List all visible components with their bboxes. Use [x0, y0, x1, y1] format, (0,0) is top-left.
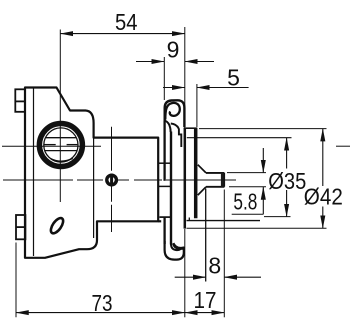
clip hook outer: [165, 241, 184, 260]
curl inner spiral: [165, 103, 180, 120]
dim 17 line: [185, 312, 225, 314]
cover slot middle broken line: [44, 144, 56, 146]
shaft taper top: [198, 165, 206, 173]
cover inner circle: [44, 128, 78, 162]
dim 54 extension right (shared): [184, 27, 186, 128]
svg-text:54: 54: [115, 9, 138, 35]
clip leg rung top: [159, 162, 172, 164]
centerline horizontal (cover): [2, 145, 101, 147]
flange plate top edge: [184, 127, 198, 129]
centerline shaft axis: [3, 179, 236, 181]
dim 5 extension right: [196, 84, 198, 127]
dim 73 extension left: [15, 243, 17, 318]
clip leg rung bottom: [159, 185, 172, 187]
dim 8 extension left: [205, 189, 207, 282]
svg-text:Ø42: Ø42: [304, 183, 343, 209]
clip leg left edge (upper): [163, 121, 165, 181]
cover ring (thick): [39, 124, 82, 167]
dim 17 extension right: [223, 190, 225, 318]
dim 5.8 extension bottom: [229, 186, 266, 188]
clip hook inner: [171, 241, 181, 250]
svg-text:5: 5: [227, 64, 240, 90]
svg-text:Ø35: Ø35: [268, 168, 306, 194]
body mid joint line: [93, 138, 95, 238]
dim 73/17 shared extension: [184, 229, 186, 317]
cover slot bottom line: [45, 150, 77, 152]
shaft stub top: [206, 172, 224, 174]
svg-text:73: 73: [92, 290, 113, 316]
curl bottom fold: [171, 124, 182, 148]
shaft stub bottom: [206, 186, 224, 188]
small circle node: [107, 175, 117, 185]
dim D42 line: [322, 129, 324, 186]
cover lower chord: [50, 158, 72, 161]
flange plate bottom step: [187, 220, 261, 222]
clip hook tip: [172, 243, 184, 250]
dim D42 extension bottom: [187, 227, 327, 229]
clip leg rung lower: [160, 216, 171, 218]
body bottom edge right stub: [158, 220, 161, 222]
clip leg left edge (lower): [163, 217, 165, 244]
dim D42 extension top: [199, 128, 327, 130]
shaft stub end cap: [221, 173, 225, 187]
svg-text:9: 9: [167, 36, 180, 62]
svg-text:8: 8: [208, 252, 221, 278]
dim 5 arrows: [163, 87, 185, 89]
dim 5.8 arrows: [262, 148, 264, 173]
dim 54 line: [60, 33, 185, 35]
svg-text:17: 17: [194, 287, 217, 313]
dim 9 arrows: [136, 61, 164, 63]
top curl (clip rolled end): [165, 100, 185, 127]
centerline vertical (small circle): [111, 127, 113, 232]
clip leg right edge: [170, 132, 172, 245]
dim D35 extension bottom: [264, 216, 291, 218]
dim D35 line: [286, 138, 288, 169]
cast mark oval: [49, 216, 66, 235]
pump body outline: [25, 88, 158, 258]
dim 73 line: [16, 312, 185, 314]
centerline vertical (cover + dim 54 ext): [59, 30, 61, 203]
dim 9 extension left: [163, 57, 165, 100]
svg-text:5.8: 5.8: [233, 189, 257, 215]
bolt B1 (top left): [15, 89, 25, 112]
far right stray centerline segment: [336, 145, 350, 147]
body inner parting line: [33, 88, 35, 257]
cover slot top line: [46, 137, 76, 139]
dim 8 arrows: [175, 276, 206, 278]
dim 5.8 underline: [232, 213, 264, 215]
shaft taper bottom: [198, 187, 206, 195]
boss top edge / D35 top extension: [187, 137, 292, 139]
bolt B2 (bottom left): [16, 215, 25, 239]
flange plate left face (bold): [184, 128, 187, 228]
flange plate right face (bold): [194, 128, 198, 218]
dim 5.8 extension top: [227, 172, 266, 174]
curl bottom inner curve: [165, 121, 171, 133]
